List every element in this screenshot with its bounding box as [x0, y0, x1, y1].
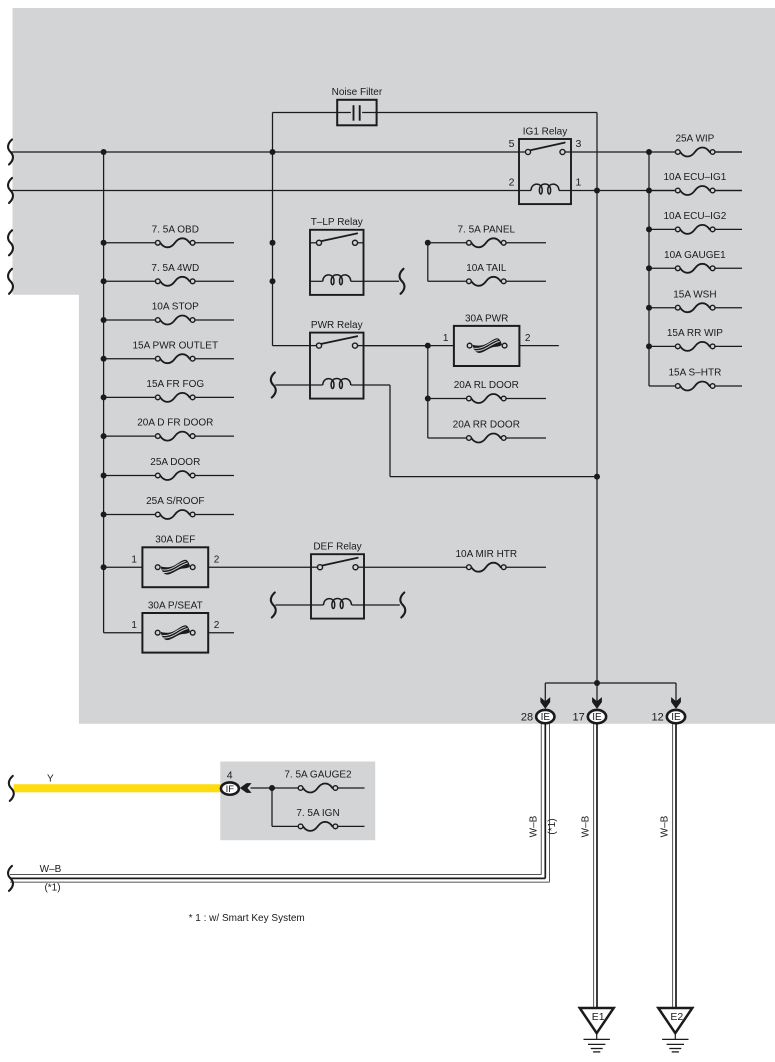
svg-text:Noise Filter: Noise Filter: [332, 87, 383, 98]
svg-text:15A S–HTR: 15A S–HTR: [668, 368, 721, 379]
svg-text:2: 2: [525, 333, 531, 344]
svg-text:15A PWR OUTLET: 15A PWR OUTLET: [133, 340, 219, 351]
svg-text:10A GAUGE1: 10A GAUGE1: [664, 250, 726, 261]
svg-text:20A RL DOOR: 20A RL DOOR: [454, 380, 519, 391]
svg-text:15A WSH: 15A WSH: [673, 289, 716, 300]
svg-text:W–B: W–B: [660, 815, 671, 837]
svg-text:IG1 Relay: IG1 Relay: [523, 126, 567, 137]
svg-text:20A D FR DOOR: 20A D FR DOOR: [137, 418, 213, 429]
svg-text:W–B: W–B: [529, 815, 540, 837]
svg-text:10A ECU–IG1: 10A ECU–IG1: [663, 172, 726, 183]
svg-text:1: 1: [576, 177, 582, 189]
svg-text:28: 28: [521, 712, 533, 724]
svg-text:7. 5A 4WD: 7. 5A 4WD: [151, 263, 199, 274]
svg-text:T–LP Relay: T–LP Relay: [311, 217, 363, 228]
svg-text:30A DEF: 30A DEF: [155, 535, 195, 546]
svg-text:7. 5A IGN: 7. 5A IGN: [296, 808, 339, 819]
svg-text:E2: E2: [670, 1011, 683, 1023]
svg-text:10A MIR HTR: 10A MIR HTR: [455, 549, 517, 560]
svg-text:2: 2: [509, 177, 515, 189]
svg-text:1: 1: [443, 333, 449, 344]
svg-text:IE: IE: [592, 712, 602, 723]
svg-text:10A ECU–IG2: 10A ECU–IG2: [663, 211, 726, 222]
svg-text:2: 2: [214, 555, 220, 566]
svg-text:E1: E1: [592, 1011, 605, 1023]
svg-text:4: 4: [227, 769, 233, 781]
svg-text:W–B: W–B: [581, 815, 592, 837]
svg-text:IE: IE: [541, 712, 551, 723]
svg-text:1: 1: [131, 620, 137, 631]
svg-text:10A STOP: 10A STOP: [152, 302, 199, 313]
svg-text:* 1 : w/ Smart Key System: * 1 : w/ Smart Key System: [189, 913, 305, 924]
svg-text:25A S/ROOF: 25A S/ROOF: [146, 496, 204, 507]
svg-text:W–B: W–B: [40, 864, 62, 875]
svg-text:7. 5A GAUGE2: 7. 5A GAUGE2: [284, 770, 352, 781]
svg-text:Y: Y: [47, 773, 54, 784]
svg-text:30A PWR: 30A PWR: [465, 313, 508, 324]
svg-text:IE: IE: [671, 712, 681, 723]
svg-text:7. 5A PANEL: 7. 5A PANEL: [457, 224, 515, 235]
svg-text:3: 3: [576, 138, 582, 150]
svg-text:17: 17: [573, 712, 585, 724]
svg-text:15A FR FOG: 15A FR FOG: [146, 379, 204, 390]
svg-text:2: 2: [214, 620, 220, 631]
svg-text:10A TAIL: 10A TAIL: [466, 263, 507, 274]
svg-text:IF: IF: [226, 784, 235, 795]
svg-text:DEF Relay: DEF Relay: [313, 542, 361, 553]
svg-text:(*1): (*1): [547, 818, 558, 834]
svg-text:PWR Relay: PWR Relay: [311, 320, 363, 331]
svg-text:30A P/SEAT: 30A P/SEAT: [148, 600, 203, 611]
svg-text:7. 5A OBD: 7. 5A OBD: [152, 224, 199, 235]
svg-text:5: 5: [509, 138, 515, 150]
svg-text:25A WIP: 25A WIP: [675, 134, 714, 145]
svg-text:12: 12: [652, 712, 664, 724]
svg-text:25A DOOR: 25A DOOR: [150, 457, 200, 468]
svg-text:(*1): (*1): [44, 883, 60, 894]
svg-text:20A RR DOOR: 20A RR DOOR: [453, 420, 520, 431]
svg-text:15A RR WIP: 15A RR WIP: [667, 328, 723, 339]
svg-text:1: 1: [131, 555, 137, 566]
